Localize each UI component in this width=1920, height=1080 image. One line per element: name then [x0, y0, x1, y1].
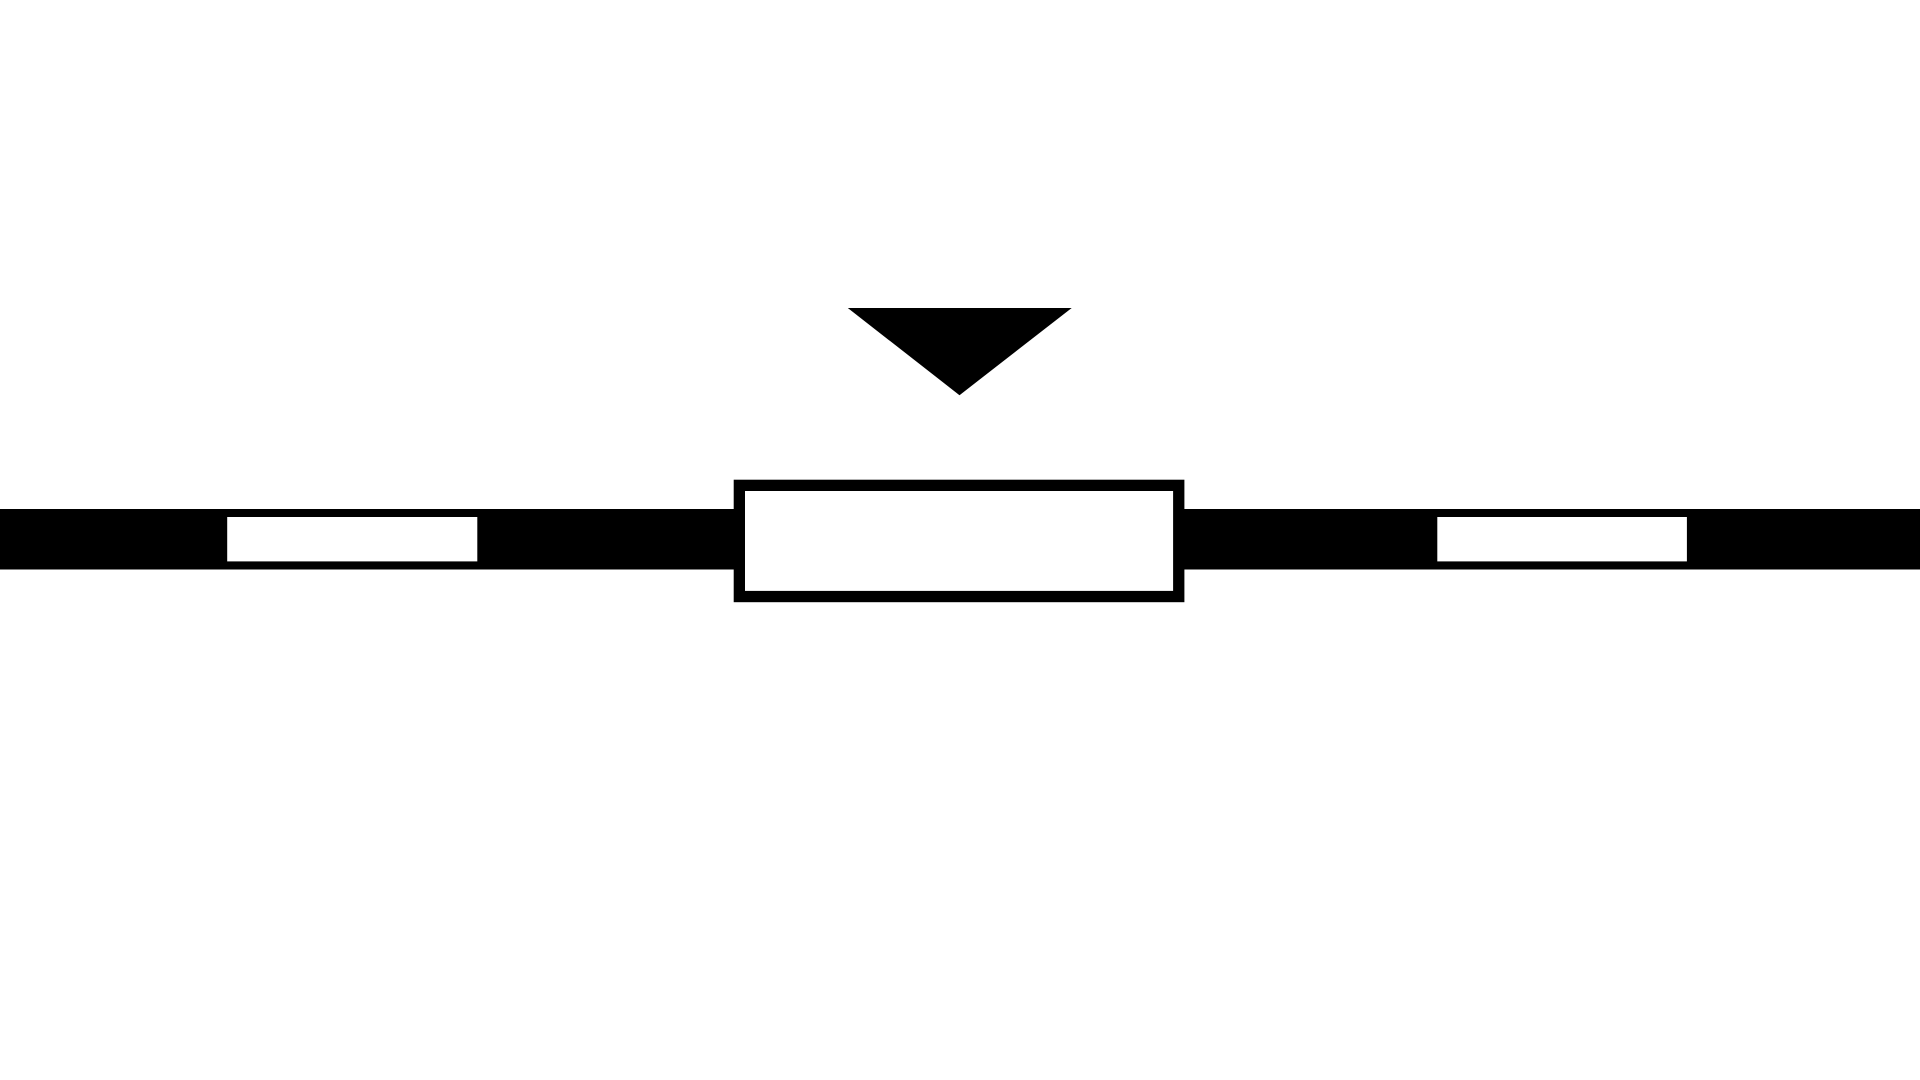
inline component slot (left white window) [227, 517, 477, 561]
inline component slot (right white window) [1437, 517, 1687, 561]
wire [0, 509, 1920, 570]
arrow marker (pointing down at resistor) [848, 308, 1072, 395]
resistor R1 (center box) [739, 485, 1178, 596]
